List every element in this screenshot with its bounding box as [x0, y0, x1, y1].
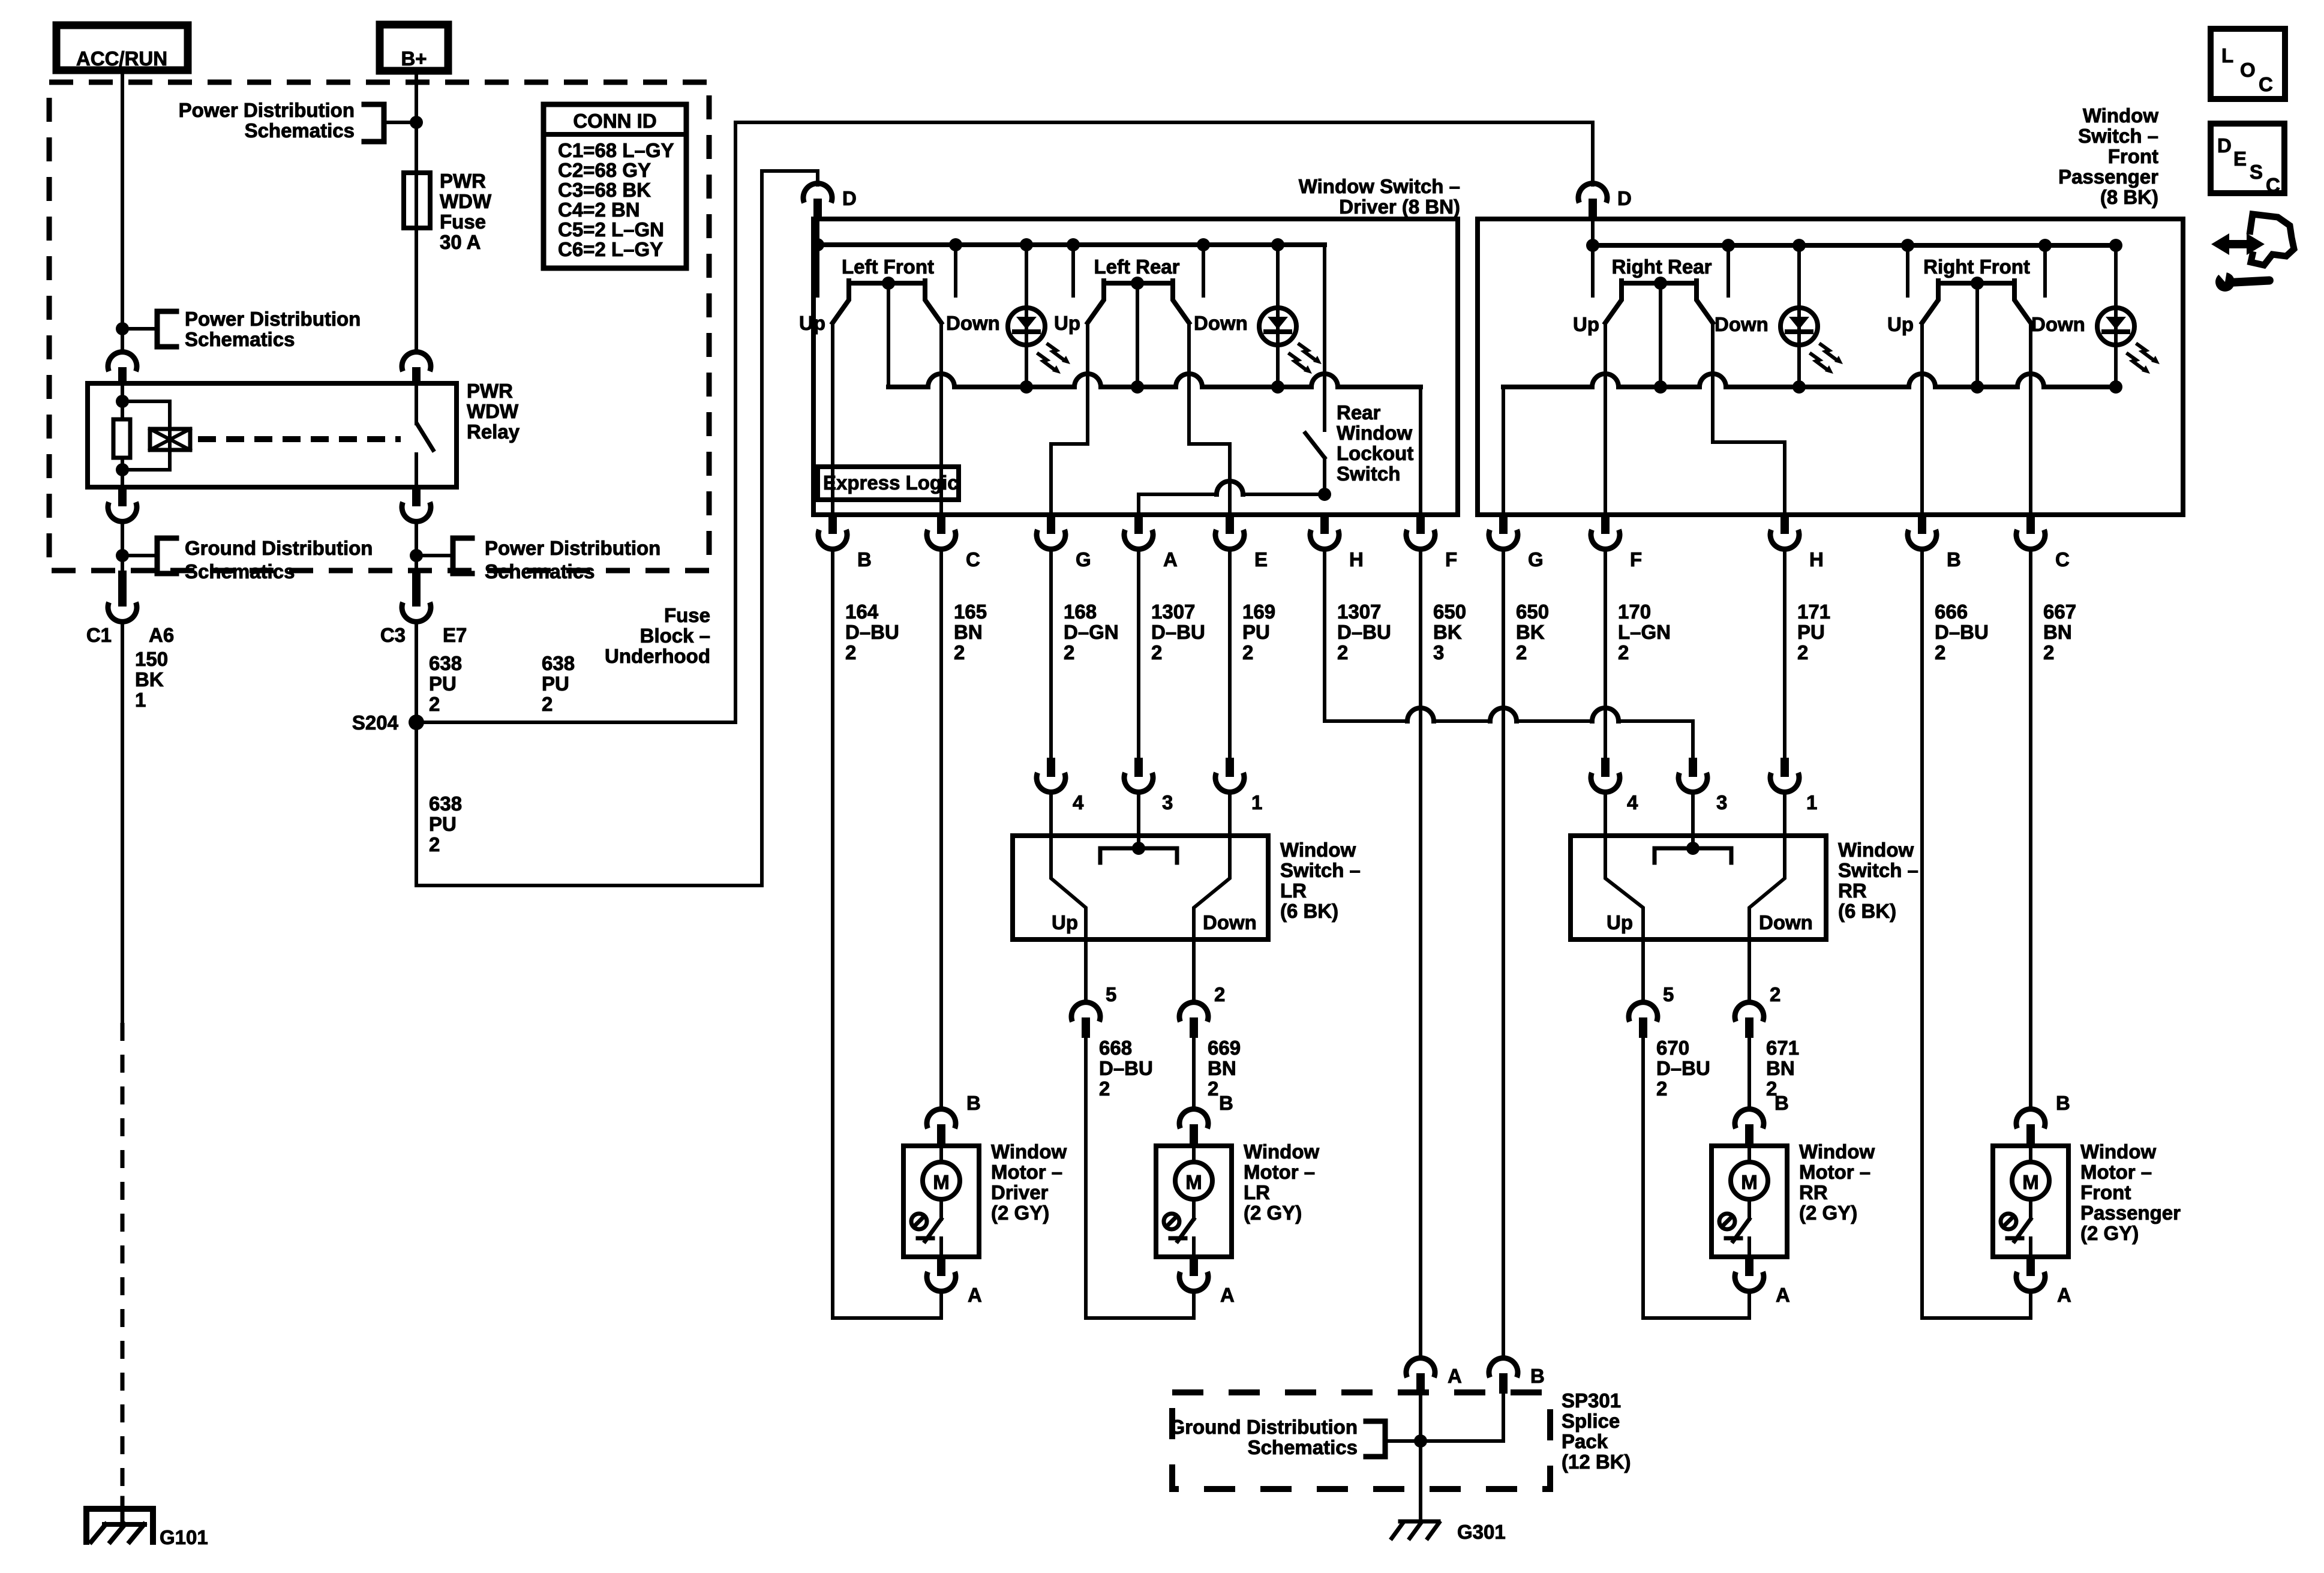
window switch RR box	[1571, 836, 1826, 939]
contact stub RF up	[1906, 245, 1909, 296]
connector passenger switch pin B	[1908, 515, 1961, 571]
window switch LR box	[1013, 836, 1268, 939]
svg-text:Schematics: Schematics	[1248, 1436, 1358, 1458]
label 171 PU 2	[1797, 601, 1830, 664]
svg-text:30 A: 30 A	[440, 231, 481, 253]
svg-text:PU: PU	[1242, 621, 1270, 643]
node B+ low ref	[410, 549, 423, 562]
svg-text:Motor –: Motor –	[991, 1161, 1062, 1183]
connector relay pin 30 (B+)	[402, 352, 431, 385]
connector C1 pin A6	[86, 571, 174, 646]
wire RF down output to pin C	[2029, 323, 2032, 515]
svg-text:Relay: Relay	[467, 421, 520, 443]
wire 669 BN 2 LR pin2 to LR motor B	[1192, 1038, 1196, 1109]
label Window Motor - Driver (2 GY)	[991, 1140, 1067, 1224]
svg-text:5: 5	[1663, 983, 1674, 1005]
svg-text:(6 BK): (6 BK)	[1838, 900, 1896, 922]
svg-text:Driver (8 BN): Driver (8 BN)	[1339, 196, 1460, 218]
svg-text:Motor –: Motor –	[1244, 1161, 1315, 1183]
label 164 D-BU 2	[845, 601, 899, 664]
svg-text:2: 2	[1099, 1077, 1110, 1100]
svg-text:PU: PU	[1797, 621, 1825, 643]
wire 671 BN 2 RR pin2 to RR motor B	[1747, 1038, 1751, 1109]
connector LR switch pin 5	[1071, 939, 1116, 1038]
svg-text:WDW: WDW	[467, 400, 519, 422]
svg-text:2: 2	[1770, 983, 1780, 1005]
label 669 BN 2	[1208, 1037, 1241, 1100]
wire S204 to passenger feed riser	[416, 122, 1593, 722]
label 168 D-GN 2	[1064, 601, 1119, 664]
label 150 BK 1	[135, 648, 168, 711]
svg-text:RR: RR	[1799, 1181, 1828, 1203]
svg-text:B+: B+	[401, 47, 427, 70]
svg-text:168: 168	[1064, 601, 1097, 623]
wire 164 D-BU 2 driver B to driver motor A	[833, 550, 941, 1318]
svg-text:Window: Window	[1280, 839, 1356, 861]
svg-text:Window Switch –: Window Switch –	[1299, 175, 1460, 197]
svg-text:E7: E7	[443, 624, 467, 646]
svg-text:A: A	[1163, 548, 1178, 571]
label 1307 D-BU 2 (H)	[1337, 601, 1391, 664]
svg-text:2: 2	[1242, 641, 1253, 664]
svg-text:Up: Up	[1573, 313, 1599, 335]
svg-text:L: L	[2221, 44, 2233, 67]
svg-text:Down: Down	[946, 312, 1000, 334]
wire 165 BN 2 driver C to driver motor B	[939, 550, 943, 1109]
svg-text:PWR: PWR	[467, 380, 513, 402]
svg-text:2: 2	[1151, 641, 1162, 664]
svg-text:4: 4	[1073, 791, 1084, 813]
icon window adjust arrow with wrench	[2211, 214, 2294, 292]
wire LR center to common bus	[1136, 283, 1139, 387]
wire LR down output to pin E	[1189, 323, 1230, 515]
wire ACC/RUN feed	[121, 70, 124, 352]
svg-text:O: O	[2240, 59, 2256, 81]
label Up (RR switch)	[1607, 911, 1633, 933]
svg-text:638: 638	[429, 652, 462, 674]
svg-text:WDW: WDW	[440, 190, 492, 212]
svg-text:Splice: Splice	[1562, 1410, 1620, 1432]
svg-text:B: B	[1774, 1092, 1789, 1114]
switch rocker Right Front	[1922, 277, 2031, 323]
LED driver right indicator	[1259, 245, 1322, 387]
label Up (LF)	[799, 312, 825, 334]
label 667 BN 2	[2043, 601, 2076, 664]
svg-text:Left Rear: Left Rear	[1094, 256, 1179, 278]
svg-text:Driver: Driver	[991, 1181, 1049, 1203]
svg-text:A: A	[2057, 1284, 2071, 1306]
wire common bus to pin G (passenger)	[1502, 387, 1505, 515]
label Fuse Block - Underhood	[605, 604, 710, 667]
wire 650 BK 3 driver F to SP301 A	[1419, 550, 1422, 1358]
relay coil	[113, 385, 130, 487]
svg-text:SP301: SP301	[1562, 1389, 1621, 1412]
LED passenger left indicator	[1780, 245, 1843, 387]
window motor front passenger	[1993, 1109, 2068, 1292]
svg-text:Fuse: Fuse	[440, 211, 486, 233]
svg-text:Front: Front	[2080, 1181, 2131, 1203]
svg-text:Schematics: Schematics	[245, 119, 355, 142]
wire LF down output to pin C	[939, 323, 943, 515]
wire LF center to common bus	[887, 283, 890, 387]
svg-text:Block –: Block –	[640, 625, 710, 647]
connector LR motor pin A	[1220, 1284, 1235, 1306]
fuse F1 PWR WDW Fuse 30A	[404, 173, 430, 228]
label Up (RR)	[1573, 313, 1599, 335]
label 169 PU 2	[1242, 601, 1275, 664]
svg-text:C2=68 GY: C2=68 GY	[558, 159, 651, 181]
wire relay to C3	[415, 521, 418, 571]
svg-text:A: A	[1448, 1365, 1462, 1387]
svg-text:D: D	[1617, 187, 1632, 209]
label 170 L-GN 2	[1618, 601, 1671, 664]
contact stub RR down	[1727, 245, 1730, 296]
RR switch down contact	[1749, 792, 1785, 939]
svg-text:3: 3	[1162, 791, 1173, 813]
connector driver switch pin H	[1310, 515, 1364, 571]
svg-text:669: 669	[1208, 1037, 1241, 1059]
svg-text:S: S	[2250, 161, 2263, 183]
svg-text:2: 2	[1797, 641, 1808, 664]
svg-text:M: M	[933, 1171, 950, 1193]
svg-text:D–BU: D–BU	[1656, 1057, 1710, 1079]
wire RF up output to pin B	[1920, 323, 1924, 515]
svg-text:F: F	[1630, 548, 1642, 571]
connector driver switch pin C	[927, 515, 980, 571]
svg-text:3: 3	[1716, 791, 1727, 813]
LR switch center contact bar	[1100, 792, 1177, 863]
svg-text:Window: Window	[2083, 104, 2158, 127]
wire LF up output to pin B	[831, 323, 834, 515]
svg-text:G: G	[1528, 548, 1544, 571]
label 670 D-BU 2	[1656, 1037, 1710, 1100]
ground G101	[86, 1509, 208, 1548]
connector passenger switch pin H	[1770, 515, 1824, 571]
svg-text:Down: Down	[1203, 911, 1257, 933]
svg-text:2: 2	[1618, 641, 1629, 664]
icon LOC box	[2211, 29, 2285, 99]
svg-text:Fuse: Fuse	[664, 604, 710, 626]
wire 638 PU 2 from C3 to S204	[415, 622, 418, 722]
svg-text:C: C	[2055, 548, 2070, 571]
svg-text:Passenger: Passenger	[2080, 1202, 2181, 1224]
label Window Motor - RR (2 GY)	[1799, 1140, 1875, 1224]
svg-text:Lockout: Lockout	[1337, 442, 1413, 464]
svg-text:Window: Window	[1337, 422, 1412, 444]
svg-text:B: B	[966, 1092, 981, 1114]
relay switch contact	[416, 385, 433, 487]
reference Power Distribution Schematics (B+ low)	[416, 537, 660, 583]
connector RR switch pin 5	[1629, 939, 1674, 1038]
svg-text:2: 2	[1064, 641, 1074, 664]
svg-text:Right Rear: Right Rear	[1612, 256, 1712, 278]
svg-text:Down: Down	[1715, 313, 1768, 335]
svg-text:171: 171	[1797, 601, 1830, 623]
svg-text:B: B	[857, 548, 872, 571]
svg-text:Underhood: Underhood	[605, 645, 710, 667]
connector FP motor pin A	[2057, 1284, 2071, 1306]
svg-text:(8 BK): (8 BK)	[2100, 186, 2158, 208]
relay K1 PWR WDW Relay box	[88, 383, 457, 487]
wire 1307 D-BU 2 driver H to RR switch pin 3	[1325, 550, 1693, 758]
ground distribution dashed box	[1172, 1392, 1550, 1489]
svg-text:Down: Down	[2031, 313, 2085, 335]
wire 168 D-GN 2 driver G to LR switch pin 4	[1049, 550, 1053, 758]
label 165 BN 2	[954, 601, 987, 664]
svg-text:Rear: Rear	[1337, 401, 1381, 424]
svg-text:Express Logic: Express Logic	[823, 472, 959, 494]
svg-text:BK: BK	[135, 668, 164, 691]
label 638 PU 2 (third)	[429, 792, 462, 855]
label Window Switch - RR (6 BK)	[1838, 839, 1918, 922]
splice S204	[352, 712, 424, 734]
node on ACC wire	[116, 322, 129, 335]
wire lockout output to pin A	[1139, 481, 1325, 515]
ground G301	[1392, 1521, 1506, 1543]
svg-text:(12 BK): (12 BK)	[1562, 1451, 1631, 1473]
wire SP301 A to G301	[1419, 1394, 1422, 1521]
connector LR switch pin 3	[1124, 758, 1173, 836]
RR switch center contact bar	[1655, 792, 1731, 863]
wire 638 PU 2 S204 to driver feed riser	[416, 171, 818, 885]
svg-text:Schematics: Schematics	[185, 560, 295, 583]
svg-text:BK: BK	[1433, 621, 1462, 643]
svg-text:B: B	[2056, 1092, 2070, 1114]
svg-text:Up: Up	[1054, 312, 1080, 334]
label Right Front	[1923, 256, 2030, 278]
reference Ground Distribution Schematics (SP301)	[1170, 1416, 1421, 1458]
connector relay pin 85 (ACC)	[108, 352, 137, 385]
contact stub LR up	[1071, 245, 1075, 296]
svg-text:667: 667	[2043, 601, 2076, 623]
svg-text:Window: Window	[1838, 839, 1914, 861]
svg-text:Power Distribution: Power Distribution	[179, 99, 355, 121]
connector LR switch pin 1	[1215, 758, 1262, 836]
svg-text:Right Front: Right Front	[1923, 256, 2030, 278]
wire relay to C1	[121, 521, 124, 571]
window switch front passenger box	[1478, 219, 2183, 515]
driver switch feed bus	[811, 220, 1325, 251]
window motor RR	[1712, 1109, 1787, 1292]
LED driver left indicator	[1008, 245, 1070, 387]
node SP301 junction	[1414, 1434, 1427, 1448]
label Down (LF)	[946, 312, 1000, 334]
label Up (RF)	[1887, 313, 1914, 335]
passenger switch common bus with hops	[1503, 374, 2122, 394]
svg-text:169: 169	[1242, 601, 1275, 623]
svg-text:Window: Window	[1799, 1140, 1875, 1163]
svg-text:668: 668	[1099, 1037, 1132, 1059]
node on B+ wire	[410, 116, 423, 129]
table CONN ID	[544, 104, 686, 268]
svg-text:Switch –: Switch –	[2078, 125, 2158, 147]
window motor LR	[1156, 1109, 1232, 1292]
connector driver switch pin A	[1124, 515, 1178, 571]
connector RR switch pin 3	[1679, 758, 1727, 836]
svg-text:(2 GY): (2 GY)	[2080, 1222, 2139, 1244]
svg-text:G101: G101	[160, 1526, 208, 1548]
svg-text:2: 2	[845, 641, 856, 664]
connector driver motor pin B	[966, 1092, 981, 1114]
reference Power Distribution Schematics (ACC mid)	[122, 308, 361, 350]
connector RR switch pin 2	[1735, 939, 1780, 1038]
svg-text:650: 650	[1516, 601, 1549, 623]
svg-text:(6 BK): (6 BK)	[1280, 900, 1338, 922]
wire 171 PU 2 passenger H to RR switch pin 1	[1783, 550, 1786, 758]
connector RR switch pin 1	[1770, 758, 1817, 836]
svg-text:2: 2	[1656, 1077, 1667, 1100]
connector driver motor pin A	[968, 1284, 982, 1306]
svg-text:Power Distribution: Power Distribution	[485, 537, 660, 559]
connector RR motor pin A	[1776, 1284, 1790, 1306]
svg-text:RR: RR	[1838, 879, 1867, 902]
svg-text:671: 671	[1766, 1037, 1799, 1059]
label 638 PU 2 (second)	[542, 652, 575, 715]
label Rear Window Lockout Switch	[1337, 401, 1413, 485]
svg-text:A: A	[1220, 1284, 1235, 1306]
svg-text:PU: PU	[542, 673, 569, 695]
svg-text:1: 1	[1806, 791, 1817, 813]
svg-text:650: 650	[1433, 601, 1466, 623]
svg-text:1: 1	[1251, 791, 1262, 813]
svg-text:C1=68 L–GY: C1=68 L–GY	[558, 139, 674, 161]
svg-text:Passenger: Passenger	[2058, 166, 2158, 188]
connector LR motor pin B	[1219, 1092, 1233, 1114]
svg-text:D: D	[2217, 134, 2232, 157]
contact stub RR up	[1591, 245, 1595, 296]
svg-text:666: 666	[1935, 601, 1968, 623]
svg-text:C4=2 BN: C4=2 BN	[558, 199, 640, 221]
relay actuation dashed link	[198, 436, 401, 442]
svg-text:Window: Window	[2080, 1140, 2156, 1163]
LR switch up contact	[1051, 792, 1086, 939]
connector RR motor pin B	[1774, 1092, 1789, 1114]
svg-text:C: C	[966, 548, 980, 571]
connector RR switch pin 4	[1591, 758, 1638, 836]
svg-text:2: 2	[1208, 1077, 1218, 1100]
svg-text:150: 150	[135, 648, 168, 670]
label Window Switch - Driver (8 BN)	[1299, 175, 1460, 218]
svg-text:Window: Window	[1244, 1140, 1319, 1163]
label PWR WDW Fuse 30 A	[440, 170, 492, 253]
svg-text:A: A	[968, 1284, 982, 1306]
svg-text:B: B	[1947, 548, 1961, 571]
contact stub LF up	[816, 245, 819, 296]
svg-text:Up: Up	[1607, 911, 1633, 933]
LR switch down contact	[1194, 792, 1230, 939]
svg-text:D: D	[842, 187, 857, 209]
svg-text:C6=2 L–GY: C6=2 L–GY	[558, 238, 663, 260]
svg-text:G301: G301	[1457, 1521, 1506, 1543]
power symbol ACC/RUN	[56, 25, 188, 70]
wire LR up output to pin G	[1051, 323, 1088, 515]
svg-text:S204: S204	[352, 712, 399, 734]
svg-text:C5=2 L–GN: C5=2 L–GN	[558, 218, 664, 241]
svg-text:CONN ID: CONN ID	[573, 110, 656, 132]
svg-text:E: E	[2233, 148, 2247, 170]
svg-text:ACC/RUN: ACC/RUN	[76, 47, 167, 70]
reference Power Distribution Schematics (B+ top)	[179, 99, 416, 142]
label 671 BN 2	[1766, 1037, 1799, 1100]
svg-text:1307: 1307	[1337, 601, 1381, 623]
wire 666 D-BU 2 passenger B to FP motor A	[1922, 550, 2031, 1318]
svg-text:M: M	[1185, 1171, 1202, 1193]
svg-text:1: 1	[135, 689, 146, 711]
svg-text:5: 5	[1106, 983, 1116, 1005]
label Left Rear	[1094, 256, 1179, 278]
label 638 PU 2 (first)	[429, 652, 462, 715]
svg-text:4: 4	[1627, 791, 1638, 813]
svg-text:L–GN: L–GN	[1618, 621, 1671, 643]
svg-text:LR: LR	[1280, 879, 1307, 902]
switch rocker Left Rear	[1088, 277, 1189, 323]
svg-text:1307: 1307	[1151, 601, 1195, 623]
svg-text:Pack: Pack	[1562, 1430, 1608, 1452]
label SP301 Splice Pack (12 BK)	[1562, 1389, 1631, 1473]
svg-text:PWR: PWR	[440, 170, 486, 192]
connector driver switch pin G	[1037, 515, 1091, 571]
connector passenger switch pin C	[2016, 515, 2070, 571]
svg-text:A6: A6	[149, 624, 174, 646]
connector D passenger switch	[1578, 122, 1632, 220]
power symbol B+	[380, 25, 448, 71]
svg-text:A: A	[1776, 1284, 1790, 1306]
connector relay pin 86 out	[108, 487, 137, 521]
svg-text:Motor –: Motor –	[1799, 1161, 1870, 1183]
switch rocker Left Front	[833, 277, 941, 323]
svg-text:BN: BN	[1208, 1057, 1236, 1079]
svg-text:H: H	[1349, 548, 1364, 571]
svg-text:Left Front: Left Front	[842, 256, 934, 278]
label Down (RR switch)	[1759, 911, 1813, 933]
svg-text:C: C	[2259, 73, 2273, 95]
wire RR up output to pin F	[1604, 323, 1607, 515]
node lockout output	[1318, 488, 1331, 501]
svg-text:2: 2	[1516, 641, 1527, 664]
connector relay pin 87 out	[402, 487, 431, 521]
label Window Switch - Front Passenger (8 BK)	[2058, 104, 2158, 208]
svg-text:C1: C1	[86, 624, 112, 646]
label Up (LR switch)	[1052, 911, 1078, 933]
svg-text:Motor –: Motor –	[2080, 1161, 2152, 1183]
svg-text:Switch –: Switch –	[1838, 859, 1918, 881]
svg-text:D–BU: D–BU	[1337, 621, 1391, 643]
connector C3 pin E7	[380, 571, 467, 646]
svg-text:M: M	[2022, 1171, 2039, 1193]
rear window lockout switch	[1305, 245, 1325, 494]
label 668 D-BU 2	[1099, 1037, 1153, 1100]
contact stub LR down	[1202, 245, 1205, 296]
svg-text:C: C	[2266, 174, 2280, 196]
svg-text:F: F	[1445, 548, 1457, 571]
svg-text:Up: Up	[1052, 911, 1078, 933]
svg-text:638: 638	[429, 792, 462, 815]
svg-text:D–BU: D–BU	[1935, 621, 1989, 643]
connector passenger switch pin F	[1591, 515, 1642, 571]
label 650 BK 3	[1433, 601, 1466, 664]
svg-text:D–BU: D–BU	[1151, 621, 1205, 643]
svg-text:2: 2	[954, 641, 965, 664]
svg-text:2: 2	[429, 693, 440, 715]
svg-text:Down: Down	[1194, 312, 1248, 334]
svg-text:M: M	[1741, 1171, 1758, 1193]
wire 670 D-BU 2 RR pin5 to RR motor A	[1643, 1038, 1749, 1318]
connector FP motor pin B	[2056, 1092, 2070, 1114]
window switch driver box	[813, 219, 1458, 515]
label PWR WDW Relay	[467, 380, 520, 443]
label Down (LR switch)	[1203, 911, 1257, 933]
svg-text:PU: PU	[429, 813, 457, 835]
